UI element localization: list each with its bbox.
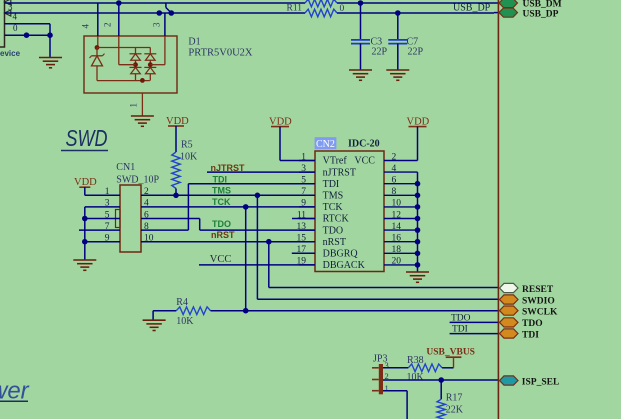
svg-text:22P: 22P: [408, 47, 424, 58]
svg-text:8: 8: [392, 187, 397, 197]
svg-text:R4: R4: [176, 297, 188, 308]
svg-text:18: 18: [392, 245, 402, 255]
svg-text:10K: 10K: [180, 152, 198, 163]
svg-text:TDO: TDO: [212, 219, 231, 229]
svg-text:20: 20: [392, 257, 402, 267]
svg-text:12: 12: [392, 210, 402, 220]
svg-text:DBGRQ: DBGRQ: [323, 249, 359, 260]
svg-text:1: 1: [301, 152, 306, 162]
svg-text:USB_VBUS: USB_VBUS: [426, 348, 475, 358]
svg-text:R38: R38: [407, 355, 424, 366]
svg-text:4: 4: [392, 164, 397, 174]
svg-text:TMS: TMS: [323, 191, 344, 202]
svg-text:5: 5: [301, 176, 306, 186]
svg-text:TDO: TDO: [522, 319, 543, 329]
svg-text:ISP_SEL: ISP_SEL: [522, 377, 560, 387]
svg-text:13: 13: [297, 222, 307, 232]
svg-text:TCK: TCK: [323, 202, 344, 213]
svg-text:R17: R17: [446, 392, 463, 403]
svg-text:10K: 10K: [407, 372, 425, 383]
svg-text:0: 0: [340, 4, 345, 14]
svg-text:USB_DP: USB_DP: [523, 10, 559, 20]
svg-text:22K: 22K: [446, 405, 464, 416]
svg-text:SWDIO: SWDIO: [522, 296, 555, 306]
svg-text:SWCLK: SWCLK: [522, 307, 558, 317]
svg-text:VCC: VCC: [210, 254, 232, 265]
svg-text:TDI: TDI: [323, 179, 340, 190]
svg-text:TDO: TDO: [323, 225, 344, 236]
svg-text:nRST: nRST: [323, 237, 346, 248]
svg-text:TDI: TDI: [522, 330, 539, 340]
svg-text:RTCK: RTCK: [323, 214, 350, 225]
svg-text:14: 14: [392, 222, 402, 232]
svg-text:3: 3: [301, 164, 306, 174]
svg-text:10K: 10K: [176, 316, 194, 327]
svg-text:PRTR5V0U2X: PRTR5V0U2X: [188, 48, 253, 59]
svg-text:DBGACK: DBGACK: [323, 260, 366, 271]
svg-text:D1: D1: [188, 37, 200, 48]
svg-text:VTref: VTref: [323, 156, 348, 167]
svg-text:10: 10: [392, 199, 402, 209]
svg-text:R5: R5: [181, 140, 193, 151]
svg-text:USB_DP: USB_DP: [453, 3, 491, 14]
svg-text:CN2: CN2: [316, 139, 335, 150]
svg-text:1: 1: [385, 383, 389, 393]
svg-text:19: 19: [297, 257, 307, 267]
svg-text:VDD: VDD: [74, 177, 97, 188]
svg-text:7: 7: [301, 187, 306, 197]
svg-text:CN1: CN1: [116, 162, 135, 173]
svg-text:TDO: TDO: [451, 313, 471, 323]
svg-text:2: 2: [103, 23, 113, 28]
svg-text:1: 1: [129, 103, 139, 108]
svg-text:SWD: SWD: [66, 125, 108, 151]
svg-text:VCC: VCC: [354, 156, 375, 167]
svg-text:3: 3: [152, 22, 162, 27]
svg-text:R11: R11: [287, 4, 303, 14]
svg-text:evice: evice: [0, 49, 21, 58]
svg-text:9: 9: [301, 199, 306, 209]
svg-text:TDI: TDI: [452, 325, 468, 335]
svg-text:nJTRST: nJTRST: [211, 163, 246, 173]
svg-text:TCK: TCK: [212, 197, 231, 207]
svg-text:nJTRST: nJTRST: [323, 167, 356, 178]
svg-text:4: 4: [81, 24, 91, 29]
svg-text:22P: 22P: [372, 47, 388, 58]
svg-text:nRST: nRST: [211, 230, 235, 240]
svg-text:16: 16: [392, 234, 402, 244]
svg-text:TMS: TMS: [212, 186, 231, 196]
svg-text:6: 6: [392, 176, 397, 186]
svg-text:IDC-20: IDC-20: [348, 139, 380, 150]
svg-text:USB_DM: USB_DM: [523, 0, 562, 10]
svg-text:TDI: TDI: [213, 174, 228, 184]
svg-text:SWD_10P: SWD_10P: [116, 174, 159, 185]
svg-text:2: 2: [392, 152, 397, 162]
svg-text:15: 15: [297, 234, 307, 244]
svg-text:RESET: RESET: [522, 285, 554, 295]
